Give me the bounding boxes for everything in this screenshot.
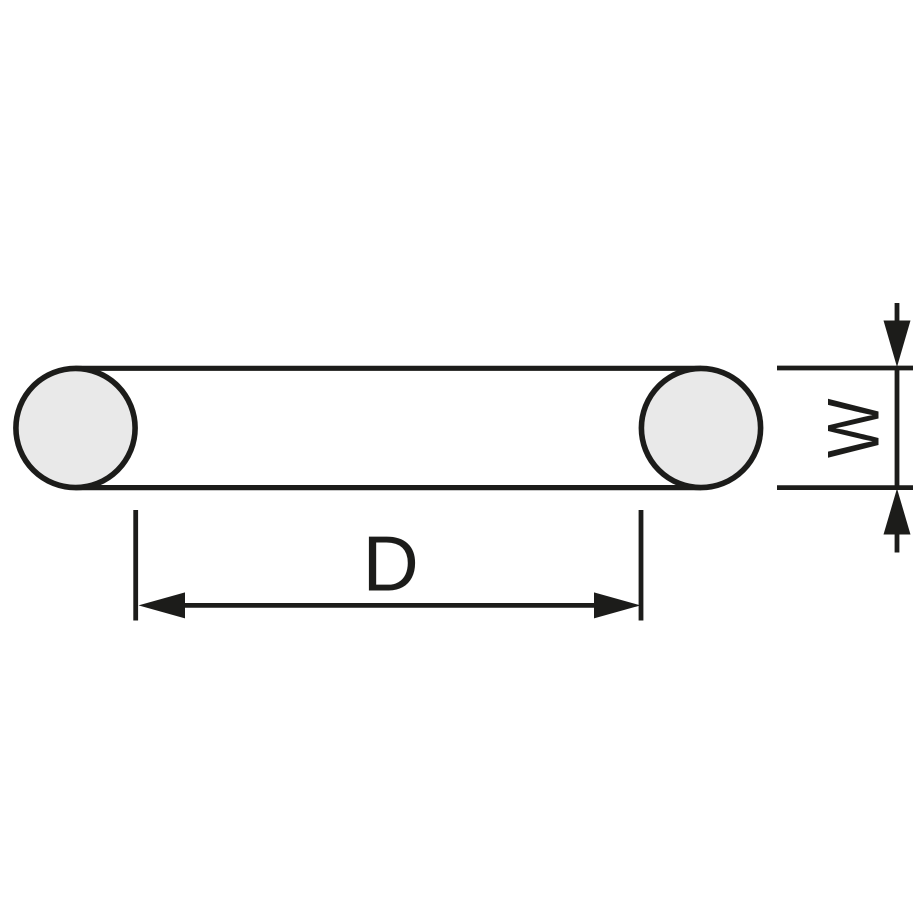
D dimension left extension line [133,510,138,621]
W dimension upper arrow tail [895,303,900,324]
o-ring bottom silhouette line [76,485,702,490]
W dimension lower arrow tail [895,531,900,553]
W dimension bottom extension line [777,485,913,490]
W dimension lower arrowhead (points up) [884,489,911,535]
o-ring top silhouette line [76,366,702,371]
D dimension left arrowhead (points left) [139,592,186,618]
o-ring left cross-section circle [16,368,135,487]
W dimension vertical line between extension lines [895,368,900,488]
W dimension upper arrowhead (points down) [884,321,911,368]
svg-text:W: W [813,398,894,458]
D dimension right extension line [639,510,644,621]
D dimension right arrowhead (points right) [594,592,641,618]
svg-text:D: D [363,520,419,608]
D dimension line [160,603,617,608]
o-ring right cross-section circle [641,368,760,487]
W dimension top extension line [777,366,913,371]
